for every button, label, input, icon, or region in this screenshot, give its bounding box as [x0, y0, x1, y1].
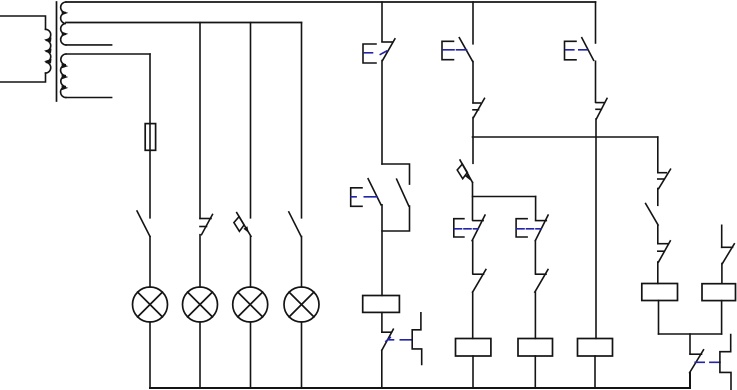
contact NO on C4 [646, 204, 659, 226]
wire secondary winding2 bottom stub [66, 97, 112, 99]
wire column C6 to coil [721, 264, 723, 284]
wire lamp column 2 upper [199, 23, 201, 219]
wire lamp column 1 to bus [149, 322, 151, 388]
wire column C4 top [657, 137, 659, 173]
wire column C6 stub [721, 225, 723, 247]
lamp HL1 [133, 287, 168, 322]
wire column C2 upper [472, 62, 474, 103]
pushbutton SB4 (NC, E cap) [454, 215, 485, 241]
wire primary top lead [0, 16, 46, 29]
wire column C1 lower [381, 205, 383, 296]
lamp HL4 [284, 287, 319, 322]
coil KM3 [518, 339, 553, 357]
wire column C4 a [657, 189, 659, 206]
wire below coil KM6 [721, 301, 723, 334]
wire column C1 middle [381, 61, 383, 165]
wire lamp column 2 to bus [199, 322, 201, 388]
transformer core [56, 2, 58, 101]
contact KM NC on C2 lower [473, 270, 486, 293]
wire column C4 to coil [657, 262, 659, 284]
coil KM4 [578, 339, 613, 357]
wire column C2 to coil [472, 292, 474, 338]
winding cusp arrowheads [44, 11, 68, 91]
wire mid horizontal [473, 136, 658, 138]
coil KM2 [456, 339, 491, 357]
wire below coil KM5 [658, 301, 660, 335]
wire primary bottom lead [0, 73, 46, 82]
wire column C4 b [657, 226, 659, 244]
wire lamp column 1 lower [149, 237, 151, 288]
contact S2 (NC with hook and tick) [200, 215, 213, 235]
limit switch SQ on C2 [457, 160, 472, 183]
contact KM1 linked NC left [382, 329, 411, 350]
transformer primary winding [46, 29, 51, 73]
contact linked NC bridge Z2 [720, 335, 731, 390]
pushbutton SB3 (NO start, E cap) [442, 38, 473, 62]
coil KM6 [702, 284, 736, 301]
wire lamp column 3 upper [250, 23, 252, 218]
wire lamp column 4 upper [301, 23, 303, 218]
coil KM5 [642, 284, 678, 301]
wire column C2b mid [534, 241, 536, 274]
pushbutton SB6 (NO start, E cap) [565, 38, 594, 61]
wire column C5 drop [689, 334, 691, 354]
lamp HL3 [233, 287, 268, 322]
wire bottom bus [150, 373, 690, 388]
wire column C2 mid [472, 241, 474, 274]
wire branch split horizontal [473, 196, 536, 198]
contact NC on C6 [722, 244, 735, 264]
wire branch column C2b [535, 197, 537, 220]
wire column C1 top [381, 2, 383, 41]
wire column C3 to bus [594, 356, 596, 388]
wire lamp column 3 lower [250, 236, 252, 287]
limit switch S3 [234, 213, 251, 237]
transformer T1 [0, 2, 68, 101]
transformer secondary winding 2 [61, 54, 66, 98]
switch S4 blade [289, 212, 301, 237]
wire below coil KM1 [381, 312, 383, 332]
switch S1 blade [137, 211, 150, 237]
contact NC1 (hook+tick) on C4 [658, 169, 671, 188]
wire lamp column 4 lower [301, 237, 303, 288]
wire column C3 top [595, 2, 597, 43]
wire top bus L1 [66, 1, 596, 3]
wire lamp column 4 to bus [301, 322, 303, 388]
pushbutton SB1 (NC stop, E cap) [363, 39, 395, 63]
contact KM NC (hook+tick) on C2 [473, 98, 485, 117]
wire column C2b to coil [534, 292, 536, 338]
contact linked NC on C5 [690, 350, 720, 373]
wire column C2 to bus [472, 356, 474, 388]
wire column C1 to bus [381, 350, 383, 388]
contact NC2 (hook+tick) on C4 [658, 241, 671, 262]
wire column C3 upper [595, 61, 597, 102]
transformer secondary winding 1 [61, 2, 66, 45]
fuse FU1 [145, 124, 155, 151]
wire second bus L2 [66, 22, 302, 24]
contact KM NC on C2b lower [535, 270, 548, 293]
contact linked NC bridge Z1 [412, 313, 422, 365]
wire column C2 top [472, 2, 474, 44]
wire column C2b to bus [534, 356, 536, 388]
wire secondary winding1 bottom stub [66, 44, 112, 46]
contact KM NC (hook+tick) on C3 [596, 98, 607, 119]
lamp HL2 [183, 287, 218, 322]
wire lamp column 1 upper [149, 54, 151, 218]
wire lamp column 3 to bus [250, 322, 252, 388]
wire column C2 lower [472, 183, 474, 221]
pushbutton SB2 (double NO, E cap) [351, 164, 410, 231]
pushbutton SB5 (NC, E cap) [516, 215, 548, 241]
coil KM1 [363, 296, 400, 313]
wire bottom right horizontal [659, 333, 722, 335]
wire column C2 middle [472, 118, 474, 164]
wire column C3 middle to coil [595, 119, 597, 339]
wire lamp column 2 lower [199, 235, 201, 287]
wire secondary winding2 top lead to lamp column 1 [66, 53, 150, 55]
